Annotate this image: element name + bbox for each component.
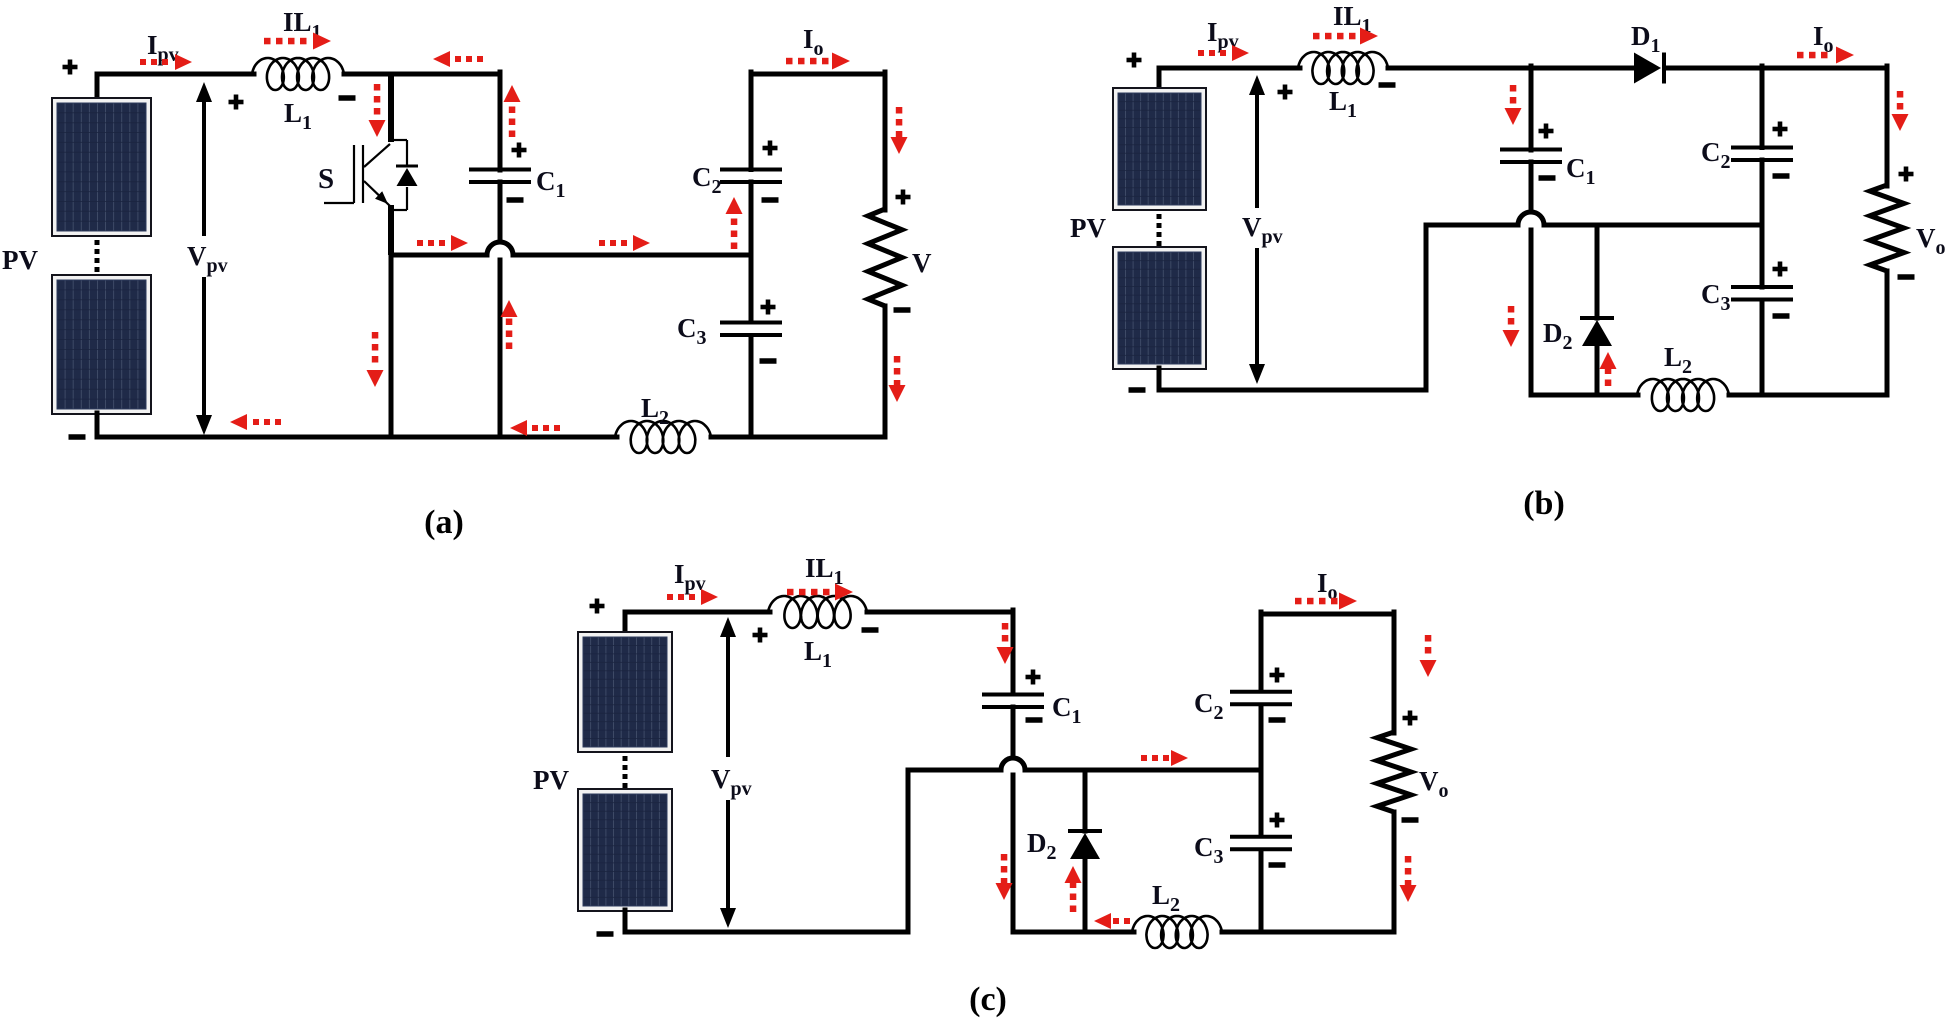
PV panel 1 (a) [51,97,152,237]
Vpv measurement arrow (b) [1249,75,1265,95]
svg-text:(b): (b) [1523,485,1565,522]
wire: (a) PV- lead down to bottom rail [95,413,100,437]
current arrow left on bottom rail (a) [230,414,247,430]
capacitor C2 (b) [1731,146,1793,150]
wire: (c) PV+ lead [623,612,628,633]
current arrow down lower C1 branch (c) [996,883,1013,900]
resistor load V (a) [868,209,902,306]
svg-text:V: V [912,248,932,278]
inductor L2 (a) coil [615,421,711,453]
minus mark C2 (a) [762,197,779,203]
wire: (c) riser from PV rail to mid wire [906,770,911,932]
wire: (a) bottom rail from L2 to load [711,435,885,440]
svg-text:(c): (c) [969,981,1007,1018]
plus mark load (a) [896,195,911,200]
inductor L2 (b) coil [1637,379,1729,411]
wire: (c) D2 branch below diode [1083,857,1088,932]
diode D1 (b) [1634,53,1661,84]
inductor L1 (b) coil [1298,52,1388,84]
svg-text:PV: PV [2,245,38,275]
wire: (c) load column lower [1392,812,1397,932]
wire: (b) top rail L1 to D1 [1388,66,1634,71]
plus mark C3 (b) [1773,267,1788,272]
PV panel 1 (c) [577,631,673,753]
wire: (b) top rail D1 to load corner [1665,66,1887,71]
wire: (a) C2/C3 column middle [749,182,754,322]
plus mark C3 (c) [1270,818,1285,823]
dotted link between PV panels (c) [623,756,628,761]
wire: (a) bottom rail from PV- to L2 [97,435,617,440]
current arrow up toward C1 (a) [504,85,521,102]
minus mark C2 (b) [1773,173,1790,179]
minus mark C3 (a) [760,358,777,364]
current arrow on mid wire (c) [1171,750,1188,766]
wire: (c) D2 branch from mid wire down [1083,770,1088,831]
minus mark load (b) [1898,274,1915,280]
minus mark C1 (c) [1026,717,1043,723]
wire: (a) top rail from PV+ to L1 [97,72,254,77]
capacitor C3 (c) [1230,835,1292,839]
wire: (b) load column lower [1885,271,1890,395]
inductor L1 (c) coil [768,596,867,628]
wire: (a) mid wire left segment [391,253,487,258]
wire: (a) C2/C3 column upper [749,72,754,170]
plus mark C1 (a) [512,148,527,153]
current arrow up through D2 (c) [1065,866,1082,883]
capacitor C1 (c) [982,693,1044,697]
wire: (c) top rail PV+ to L1 [625,610,770,615]
current arrow IL1 (b) [1360,28,1378,45]
wire: (a) emitter branch down to bottom rail [389,253,394,437]
wire: (b) C1 branch from top rail down [1529,66,1534,150]
inductor L1 (a) coil [252,58,344,90]
minus mark load (a) [894,307,911,313]
wire: (b) bottom rail L2 to load [1729,393,1887,398]
current arrow IL1 (c) [835,584,853,601]
current arrow down load column top (c) [1420,660,1437,677]
wire: (b) load column upper [1885,66,1890,186]
diode D2 (b) [1580,316,1614,320]
plus mark L1 left (c) [753,633,768,638]
minus mark PV bottom (a) [69,434,86,440]
wire: (c) output loop top [1261,612,1394,617]
diode D2 (c) [1068,829,1102,833]
current arrow down load column bottom (c) [1400,885,1417,902]
wire: (a) top rail from L1 to C1 corner [344,72,500,77]
current arrow on mid wire 1 (a) [451,235,468,251]
PV panel 2 (a) [51,274,152,415]
wire: (b) PV+ lead [1157,68,1162,90]
minus mark C2 (c) [1269,717,1286,723]
current arrow down load column bottom (a) [889,385,906,402]
wire: (b) PV bottom rail [1159,388,1426,393]
wire: (c) C2/C3 column middle [1259,705,1264,836]
PV panel 1 (b) [1112,87,1207,211]
wire: (a) load column lower [883,306,888,437]
svg-text:(a): (a) [424,504,464,541]
dotted link between PV panels (a) [95,240,100,245]
current arrow Io (c) [1339,593,1357,610]
wire: (c) top rail L1 to C1 corner [867,610,1013,615]
minus mark PV bottom (c) [597,931,614,937]
current arrow up into C2 (a) [726,197,743,214]
wire: (b) mid wire left segment [1426,223,1518,228]
svg-text:S: S [318,163,334,195]
current arrow Io (b) [1836,47,1854,64]
wire: (b) PV- lead [1157,368,1162,390]
Vpv measurement arrow (a) [196,82,212,102]
plus mark C3 (a) [761,305,776,310]
wire: (a) C1 branch below cap down to bottom rail [498,182,503,437]
svg-text:PV: PV [533,765,569,795]
circuit (b) : converter mode with D1 conducting [1070,1,1946,522]
capacitor C2 (c) [1230,690,1292,694]
wire: (b) riser from PV rail to mid wire [1424,225,1429,390]
wire: (a) mid wire right segment to C2/C3 node [513,253,751,258]
circuit (a) : converter with switch S ON [2,7,932,541]
current arrow Io (a) [832,53,850,70]
wire: (b) C2/C3 column upper [1760,66,1765,148]
current arrow left on bottom rail right section (a) [510,420,527,436]
plus mark PV top (a) [63,65,78,70]
current arrow IL1 (a) [313,33,331,50]
wire: (a) C1 branch from top corner down to C1 [498,72,503,170]
wire: (b) mid wire right segment [1544,223,1762,228]
current arrow on mid wire 2 (a) [633,235,650,251]
current arrow down into C1 (b) [1505,108,1522,125]
transistor S (IGBT with antiparallel diode) (a) [324,202,354,204]
wire hop: (c) mid wire bridges C1 branch [1001,756,1025,773]
plus mark load (c) [1403,716,1418,721]
PV panel 2 (c) [577,788,673,912]
plus mark C1 (c) [1026,675,1041,680]
wire: (a) load column upper [883,72,888,210]
capacitor C2 (a) [720,168,782,172]
current arrow down emitter branch (a) [367,370,384,387]
wire: (b) top rail PV+ to L1 [1159,66,1300,71]
plus mark C2 (a) [763,146,778,151]
capacitor C1 (b) [1500,148,1562,152]
plus mark C1 (b) [1539,129,1554,134]
capacitor C1 (a) [469,168,531,172]
current arrow up through D2 (b) [1600,352,1617,369]
capacitor C3 (a) [720,321,782,325]
wire: (c) load column upper [1392,612,1397,733]
wire: (a) output loop top [751,72,885,77]
plus mark L1 left (b) [1278,90,1293,95]
current arrow Ipv (a) [175,54,192,70]
wire: (a) C2/C3 column lower [749,336,754,438]
wire: (c) C1 branch below cap to bottom corner [1011,707,1016,932]
minus mark C1 (b) [1539,175,1556,181]
wire: (c) PV bottom rail [625,930,908,935]
wire: (b) D2 branch below diode [1595,344,1600,395]
minus mark PV bottom (b) [1129,387,1146,393]
current arrow down lower C1 branch (b) [1503,330,1520,347]
wire: (b) C2/C3 column middle [1760,160,1765,287]
plus mark PV top (c) [590,604,605,609]
capacitor C3 (b) [1731,285,1793,289]
wire: (b) C2/C3 column lower [1760,300,1765,395]
current arrow Ipv (c) [701,589,718,605]
minus mark L1 right (b) [1379,82,1396,88]
wire hop: (a) mid wire bridges C1 branch [487,240,513,258]
minus mark L1 right (c) [862,627,879,633]
wire: (c) C1 branch from top corner down [1011,610,1016,694]
current arrow left on bottom rail after L2 (c) [1094,913,1111,929]
wire: (b) D2 branch from mid wire down [1595,225,1600,318]
minus mark load (c) [1402,817,1419,823]
dotted link between PV panels (b) [1157,214,1162,219]
current arrow Ipv (b) [1232,45,1249,61]
plus mark L1 left (a) [229,100,244,105]
resistor load Vo (c) [1377,732,1411,812]
wire: (c) PV- lead [623,910,628,932]
minus mark C1 (a) [507,197,524,203]
wire hop: (b) mid wire bridges C1 branch [1518,210,1544,228]
current arrow up below hop (a) [501,300,518,317]
wire: (c) C2/C3 column lower [1259,850,1264,932]
wire: (c) C2/C3 column upper [1259,612,1264,691]
plus mark C2 (b) [1773,127,1788,132]
minus mark C3 (b) [1773,313,1790,319]
inductor L2 (c) coil [1132,916,1222,948]
circuit (c) : converter mode with D2 conducting [533,553,1449,1018]
plus mark PV top (b) [1127,58,1142,63]
wire: (c) bottom rail L2 to load [1222,930,1394,935]
wire: (a) PV+ lead down to panel [95,74,100,99]
minus mark C3 (c) [1269,862,1286,868]
minus mark L1 right (a) [339,95,356,101]
wire: (c) mid wire right segment [1025,768,1261,773]
wire: (b) C1 branch below cap to bottom corner [1529,162,1534,395]
current arrow left above top rail (a) [433,51,450,67]
plus mark load (b) [1899,172,1914,177]
current arrow down load column top (a) [891,137,908,154]
Vpv measurement arrow (c) [720,617,736,637]
PV panel 2 (b) [1112,246,1207,370]
resistor load Vo (b) [1870,185,1904,271]
svg-text:PV: PV [1070,213,1106,243]
current arrow down load column (b) [1892,114,1909,131]
plus mark C2 (c) [1270,673,1285,678]
current arrow down into C1 (c) [997,647,1014,664]
current arrow into switch (a) [369,120,386,137]
wire: (c) mid wire left segment [908,768,1001,773]
